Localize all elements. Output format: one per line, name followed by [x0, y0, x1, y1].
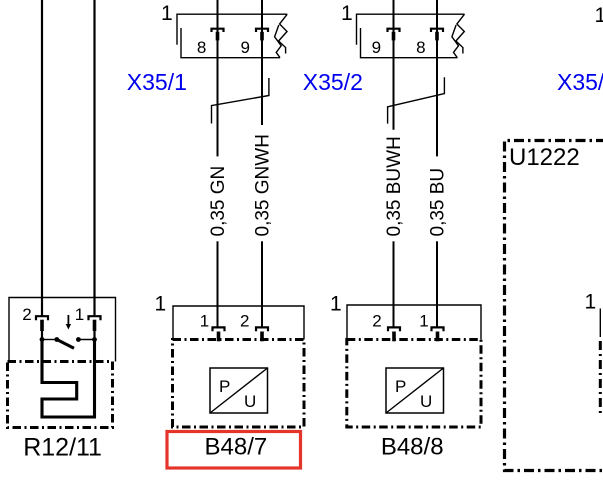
svg-text:0,35 BU: 0,35 BU — [428, 168, 449, 237]
connector X35/1 housing — [177, 14, 287, 58]
svg-text:1: 1 — [161, 2, 173, 25]
svg-text:X35/1: X35/1 — [127, 69, 187, 95]
R12/11 pin 1 socket — [89, 316, 101, 320]
relay R12/11 housing — [9, 298, 116, 362]
connector X35/2 torn edge — [456, 14, 465, 53]
svg-text:9: 9 — [240, 38, 249, 57]
wire 0,35 GN lower segment — [217, 241, 219, 327]
component U1222 dash-dot box — [505, 141, 603, 471]
svg-text:1: 1 — [200, 312, 209, 331]
svg-text:1: 1 — [594, 4, 603, 27]
U1222 inner component dash-dot edge (cut off) — [599, 341, 602, 413]
wire 0,35 GNWH upper segment — [261, 0, 263, 125]
svg-text:U: U — [420, 392, 432, 411]
wire to R12/11 pin 1 — [93, 0, 95, 316]
B48/7 pin 1 socket — [213, 327, 225, 331]
B48/8 dash-dot box — [347, 340, 481, 428]
svg-text:U: U — [244, 392, 256, 411]
svg-text:8: 8 — [416, 38, 425, 57]
B48/7 pin 2 socket — [256, 327, 268, 331]
R12/11 actuation arrow — [67, 315, 69, 325]
svg-text:P: P — [219, 377, 230, 396]
X35/1 pin 8 socket — [212, 29, 224, 32]
svg-text:8: 8 — [197, 38, 206, 57]
R12/11 pin 2 socket — [36, 316, 48, 320]
svg-text:U1222: U1222 — [509, 144, 580, 171]
wire 0,35 GN upper segment — [217, 0, 219, 156]
svg-text:1: 1 — [419, 312, 428, 331]
wire 0,35 BU upper segment — [436, 0, 438, 156]
svg-text:B48/8: B48/8 — [381, 434, 444, 461]
sensor B48/7 connector housing — [173, 306, 304, 340]
svg-text:2: 2 — [240, 312, 249, 331]
svg-text:B48/7: B48/7 — [205, 434, 268, 461]
connector X35/1 torn edge — [279, 14, 288, 53]
B48/8 pin 1 socket — [432, 327, 444, 331]
R12/11 switch contacts — [42, 339, 57, 341]
X35/1 pin 9 socket — [256, 29, 268, 32]
svg-text:1: 1 — [584, 291, 596, 314]
svg-text:9: 9 — [372, 38, 381, 57]
svg-text:P: P — [395, 377, 406, 396]
svg-text:0,35 GN: 0,35 GN — [208, 166, 229, 237]
B48/8 pin 2 socket — [388, 327, 400, 331]
wire to R12/11 pin 2 — [41, 0, 43, 316]
connector X35/2 housing — [357, 14, 465, 58]
wire 0,35 BU lower segment — [436, 241, 438, 327]
X35/2 pin 8 socket — [431, 29, 443, 32]
svg-text:2: 2 — [22, 305, 31, 324]
svg-text:2: 2 — [372, 312, 381, 331]
svg-text:X35/2: X35/2 — [303, 69, 363, 95]
svg-text:0,35 GNWH: 0,35 GNWH — [253, 134, 274, 236]
svg-text:1: 1 — [341, 2, 353, 25]
R12/11 switch lever — [57, 340, 74, 349]
U1222 inner connector housing edge (cut off) — [599, 309, 601, 338]
X35/2 pin 9 socket — [388, 29, 400, 32]
B48/7 red highlight box — [167, 432, 301, 469]
R12/11 heater element — [42, 340, 95, 418]
svg-text:1: 1 — [330, 293, 342, 316]
wire 0,35 GNWH lower segment — [261, 241, 263, 327]
wire 0,35 BUWH upper segment — [393, 0, 395, 130]
twisted pair symbol X35/1 — [212, 78, 269, 124]
svg-text:0,35 BUWH: 0,35 BUWH — [384, 136, 405, 236]
R12/11 pin stubs to switch — [41, 331, 43, 340]
sensor B48/8 connector housing — [347, 305, 481, 340]
R12/11 dash-dot box — [8, 362, 113, 428]
B48/7 P/U converter symbol — [210, 368, 268, 413]
svg-text:X35/3: X35/3 — [557, 69, 603, 95]
B48/8 P/U converter symbol — [386, 368, 444, 413]
svg-text:1: 1 — [154, 293, 166, 316]
twisted pair symbol X35/2 — [388, 77, 445, 123]
wire 0,35 BUWH lower segment — [393, 241, 395, 327]
svg-text:1: 1 — [75, 305, 84, 324]
svg-text:R12/11: R12/11 — [23, 434, 102, 462]
B48/7 dash-dot box — [173, 340, 305, 428]
